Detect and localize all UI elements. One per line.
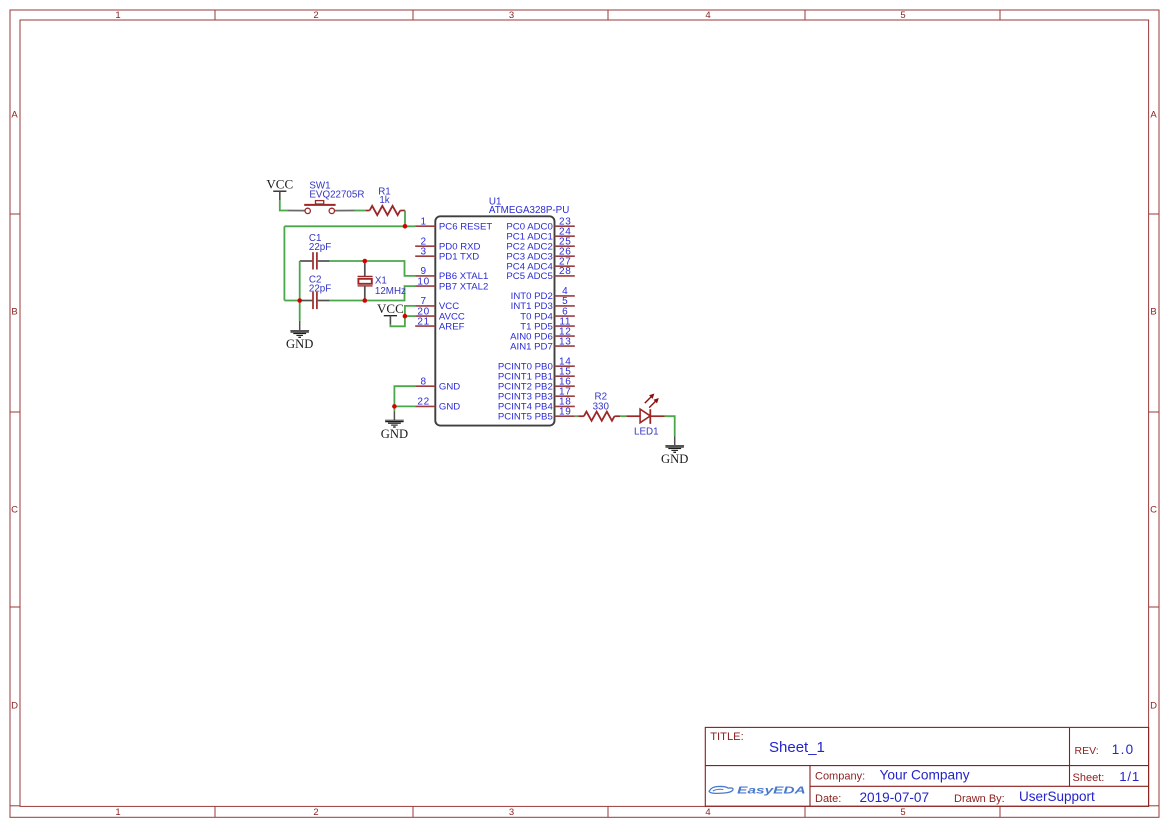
pin 17 PCINT3 PB3 (right) — [555, 395, 575, 397]
svg-text:13: 13 — [559, 336, 572, 347]
svg-text:UserSupport: UserSupport — [1019, 789, 1095, 804]
wire GND net down — [393, 406, 395, 411]
svg-text:1/1: 1/1 — [1119, 769, 1140, 784]
pin 23 PC0 ADC0 (right) — [555, 225, 575, 227]
pin 12 AIN0 PD6 (right) — [555, 335, 575, 337]
wire GND row left — [284, 300, 299, 302]
svg-text:GND: GND — [439, 402, 460, 413]
GND stem gray (chip) — [393, 411, 395, 420]
svg-text:D: D — [1150, 701, 1157, 712]
svg-text:EVQ22705R: EVQ22705R — [309, 189, 364, 200]
svg-text:1: 1 — [115, 10, 120, 21]
op-amp U1 ATMEGA328P-PU body — [435, 216, 554, 425]
pin 6 T0 PD4 (right) — [555, 315, 575, 317]
GND stem gray (LED) — [674, 436, 676, 445]
svg-text:PD1 TXD: PD1 TXD — [439, 251, 479, 262]
resistor R2 lead right — [615, 415, 621, 417]
crystal X1 lead top — [364, 261, 366, 276]
frame column tick top — [214, 10, 216, 20]
svg-text:22pF: 22pF — [309, 242, 331, 253]
svg-text:B: B — [1150, 307, 1156, 318]
svg-text:PB7 XTAL2: PB7 XTAL2 — [439, 281, 488, 292]
ground GND (below LED1) — [665, 445, 684, 452]
svg-text:8: 8 — [420, 377, 426, 388]
pin 26 PC3 ADC3 (right) — [555, 255, 575, 257]
crystal X1 plates and body — [358, 275, 373, 277]
pin 11 T1 PD5 (right) — [555, 325, 575, 327]
pin 27 PC4 ADC4 (right) — [555, 265, 575, 267]
EasyEDA logo — [709, 786, 733, 793]
svg-text:330: 330 — [593, 401, 610, 412]
capacitor C2 lead right — [318, 300, 330, 302]
pin 19 PCINT5 PB5 (right) — [555, 415, 575, 417]
frame column tick bottom — [999, 806, 1001, 817]
svg-text:22pF: 22pF — [309, 284, 331, 295]
frame row tick left — [10, 411, 20, 413]
svg-text:4: 4 — [705, 10, 710, 21]
pin 1 PC6 RESET (left) — [415, 225, 435, 227]
svg-text:C: C — [1150, 505, 1157, 516]
pin 13 AIN1 PD7 (right) — [555, 345, 575, 347]
capacitor C1 lead left — [300, 260, 313, 262]
frame column tick bottom — [607, 806, 609, 817]
svg-text:3: 3 — [509, 10, 514, 21]
power flag VCC (top-left) — [273, 190, 286, 192]
svg-text:GND: GND — [661, 452, 688, 466]
capacitor C2 lead left — [300, 300, 313, 302]
pin 28 PC5 ADC5 (right) — [555, 275, 575, 277]
pin 22 GND (left) — [415, 405, 435, 407]
frame row strip terminator left — [10, 805, 20, 807]
wire C2 junction down to GND — [299, 301, 301, 321]
pin 4 INT0 PD2 (right) — [555, 295, 575, 297]
svg-text:TITLE:: TITLE: — [710, 731, 744, 743]
wire SW1 to R1 — [355, 210, 366, 212]
svg-text:Company:: Company: — [815, 770, 865, 782]
pin 8 GND (left) — [415, 385, 435, 387]
wire C1 left down to C2 — [299, 261, 301, 301]
pin 2 PD0 RXD (left) — [415, 245, 435, 247]
resistor R1 lead left — [366, 210, 370, 212]
pin 18 PCINT4 PB4 (right) — [555, 405, 575, 407]
pin 24 PC1 ADC1 (right) — [555, 235, 575, 237]
svg-text:3: 3 — [509, 807, 514, 818]
frame row tick left — [10, 606, 20, 608]
capacitor C2 plates — [312, 292, 314, 309]
wire R2 to LED1 — [620, 415, 626, 417]
resistor R1 1k zigzag — [370, 206, 401, 215]
junction RESET net — [403, 224, 408, 229]
svg-text:10: 10 — [417, 276, 430, 287]
junction GND net — [392, 404, 397, 409]
svg-text:GND: GND — [286, 337, 313, 351]
VCC lead gray — [279, 191, 281, 200]
pin 9 PB6 XTAL1 (left) — [415, 275, 435, 277]
ground GND (below C2) — [290, 330, 309, 337]
svg-text:2: 2 — [313, 807, 318, 818]
svg-text:3: 3 — [420, 247, 426, 258]
pin 3 PD1 TXD (left) — [415, 255, 435, 257]
junction C2 GND — [297, 298, 302, 303]
frame column tick bottom — [412, 806, 414, 817]
svg-text:1.0: 1.0 — [1112, 742, 1135, 757]
capacitor C1 plates — [312, 252, 314, 269]
wire pin8 GND elbow — [394, 386, 415, 406]
wire LED1 to GND corner — [665, 416, 675, 436]
svg-text:2019-07-07: 2019-07-07 — [860, 790, 930, 805]
wire RESET net left vertical — [283, 226, 285, 300]
pin 20 AVCC (left) — [415, 315, 435, 317]
wire C1 right to XTAL1 — [330, 261, 415, 276]
frame row tick right — [1149, 213, 1159, 215]
junction crystal bottom — [363, 298, 368, 303]
wire C2 right to XTAL2 — [330, 286, 415, 300]
pin 14 PCINT0 PB0 (right) — [555, 365, 575, 367]
junction crystal top — [363, 259, 368, 264]
frame row tick left — [10, 213, 20, 215]
svg-text:GND: GND — [439, 381, 460, 392]
junction VCC net — [403, 314, 408, 319]
svg-text:2: 2 — [313, 10, 318, 21]
svg-text:AIN1 PD7: AIN1 PD7 — [510, 341, 553, 352]
wire AVCC to pin 20 — [405, 315, 415, 317]
wire VCC net up to pin 7 — [405, 306, 415, 316]
pin 7 VCC (left) — [415, 305, 435, 307]
wire RESET net horizontal — [284, 225, 415, 227]
svg-text:X1: X1 — [375, 276, 387, 287]
svg-text:GND: GND — [381, 427, 408, 441]
pin 16 PCINT2 PB2 (right) — [555, 385, 575, 387]
pin 15 PCINT1 PB1 (right) — [555, 375, 575, 377]
svg-text:5: 5 — [900, 807, 905, 818]
frame row tick right — [1149, 606, 1159, 608]
power flag VCC (AVCC) — [384, 315, 397, 317]
svg-text:A: A — [11, 110, 18, 121]
svg-text:AREF: AREF — [439, 321, 465, 332]
VCC2 lead gray — [389, 316, 391, 325]
wire R1 down to RESET net — [404, 211, 406, 227]
frame column tick top — [607, 10, 609, 20]
svg-text:28: 28 — [559, 266, 572, 277]
crystal X1 lead bottom — [364, 286, 366, 300]
svg-text:VCC: VCC — [266, 176, 293, 191]
svg-text:19: 19 — [559, 407, 572, 418]
svg-text:4: 4 — [705, 807, 710, 818]
svg-text:VCC: VCC — [377, 301, 404, 316]
resistor R2 lead left — [578, 415, 584, 417]
svg-text:B: B — [11, 307, 17, 318]
svg-text:12MHz: 12MHz — [375, 286, 406, 297]
svg-text:1k: 1k — [379, 195, 389, 206]
svg-text:PC5 ADC5: PC5 ADC5 — [506, 271, 552, 282]
LED1 diode — [626, 415, 640, 417]
svg-text:C: C — [11, 505, 18, 516]
svg-text:Your Company: Your Company — [880, 767, 970, 782]
capacitor C1 lead right — [318, 260, 330, 262]
svg-text:D: D — [11, 701, 18, 712]
svg-text:5: 5 — [900, 10, 905, 21]
frame column tick bottom — [804, 806, 806, 817]
pin 25 PC2 ADC2 (right) — [555, 245, 575, 247]
svg-text:Sheet:: Sheet: — [1073, 772, 1105, 784]
svg-text:A: A — [1150, 110, 1157, 121]
svg-text:PCINT5 PB5: PCINT5 PB5 — [498, 411, 553, 422]
svg-text:REV:: REV: — [1075, 745, 1099, 757]
svg-text:22: 22 — [417, 397, 430, 408]
svg-text:21: 21 — [417, 316, 430, 327]
title block outline — [705, 727, 1148, 806]
svg-text:Sheet_1: Sheet_1 — [769, 739, 825, 756]
wire VCC2 elbow to AVCC junction — [390, 316, 405, 326]
wire pin19 to R2 — [575, 415, 579, 417]
svg-text:LED1: LED1 — [634, 426, 659, 437]
resistor R2 330 zigzag — [584, 412, 615, 421]
frame row tick right — [1149, 411, 1159, 413]
svg-text:1: 1 — [115, 807, 120, 818]
frame row strip terminator right — [1149, 805, 1159, 807]
svg-text:EasyEDA: EasyEDA — [737, 786, 806, 797]
frame column tick top — [999, 10, 1001, 20]
wire VCC to SW1 — [280, 200, 288, 210]
svg-text:1: 1 — [420, 217, 426, 228]
switch SW1 EVQ22705R — [287, 210, 305, 212]
ground GND (below chip) — [385, 420, 404, 427]
pin 21 AREF (left) — [415, 325, 435, 327]
svg-text:Date:: Date: — [815, 793, 841, 805]
pin 10 PB7 XTAL2 (left) — [415, 285, 435, 287]
frame column tick top — [804, 10, 806, 20]
frame column tick top — [412, 10, 414, 20]
LED1 light arrows — [645, 394, 658, 407]
svg-text:Drawn By:: Drawn By: — [954, 793, 1005, 805]
frame column tick bottom — [214, 806, 216, 817]
pin 5 INT1 PD3 (right) — [555, 305, 575, 307]
svg-text:PC6 RESET: PC6 RESET — [439, 221, 492, 232]
GND stem gray (left) — [299, 321, 301, 331]
svg-text:ATMEGA328P-PU: ATMEGA328P-PU — [489, 205, 569, 216]
resistor R1 lead right — [400, 210, 405, 212]
